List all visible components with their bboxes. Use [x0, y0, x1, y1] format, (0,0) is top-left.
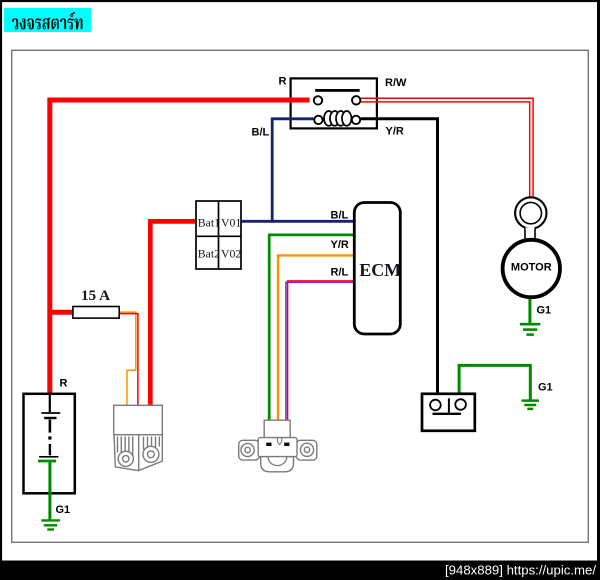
wire Y/R relay to switch	[361, 119, 438, 393]
starter switch SW1	[422, 394, 475, 431]
svg-text:[948x889] https://upic.me/: [948x889] https://upic.me/	[445, 563, 596, 578]
svg-text:Bat1: Bat1	[198, 215, 220, 229]
svg-text:Y/R: Y/R	[386, 126, 404, 138]
fuse F1	[73, 307, 119, 319]
title bar	[4, 8, 91, 32]
relay terminal top-right	[352, 96, 360, 104]
motor M1	[503, 240, 560, 297]
wire R regulator to Bat1	[150, 221, 195, 406]
relay box RL1	[291, 78, 377, 128]
connector table	[196, 201, 241, 269]
wire R fuse to regulator	[119, 314, 138, 407]
regulator rectifier	[114, 405, 163, 470]
svg-text:G1: G1	[537, 305, 552, 317]
wire R fuse feed	[50, 310, 74, 315]
ground G1 battery	[41, 520, 60, 529]
svg-text:R/W: R/W	[385, 77, 407, 89]
wire B/L junction to relay	[272, 119, 313, 223]
relay coil	[324, 111, 351, 126]
relay contact bar	[315, 89, 360, 92]
motor stem	[525, 228, 535, 242]
footer bar	[0, 561, 600, 580]
svg-text:ECM: ECM	[359, 260, 401, 280]
svg-text:MOTOR: MOTOR	[511, 262, 552, 274]
relay terminal bottom-right	[352, 116, 360, 124]
svg-text:15 A: 15 A	[81, 287, 110, 304]
wire O ECM to sensor	[278, 255, 355, 420]
motor terminal ring	[515, 197, 546, 228]
svg-text:Y/R: Y/R	[331, 239, 349, 251]
relay terminal top-left	[314, 96, 322, 104]
svg-text:G1: G1	[56, 504, 71, 516]
svg-text:R/L: R/L	[331, 267, 349, 279]
wire Y/R green ECM to sensor	[269, 235, 354, 421]
svg-text:R: R	[60, 378, 68, 390]
svg-text:B/L: B/L	[331, 210, 349, 222]
crank sensor	[239, 420, 317, 472]
wire R/W inner relay to motor	[361, 102, 530, 198]
svg-text:B/L: B/L	[252, 127, 270, 139]
wire G motor to ground	[528, 297, 531, 324]
wire R/L red ECM to sensor	[288, 281, 355, 421]
wire B/L table to ECM	[241, 220, 354, 223]
page borders	[0, 0, 600, 2]
ground G1 switch	[522, 401, 540, 409]
svg-text:R: R	[279, 76, 287, 88]
svg-text:G1: G1	[538, 381, 553, 393]
svg-text:Bat2: Bat2	[198, 247, 220, 261]
wire G switch to ground	[459, 365, 530, 399]
svg-text:V02: V02	[221, 247, 241, 261]
ECM U1	[354, 203, 401, 335]
ground G1 motor	[520, 324, 540, 334]
wire R/L blue ECM to sensor	[286, 282, 355, 420]
svg-text:V01: V01	[221, 215, 241, 229]
relay terminal bottom-left	[314, 116, 322, 124]
wire R battery to relay	[50, 100, 310, 393]
wire R/W outer relay to motor	[361, 98, 533, 197]
wire O fuse to regulator	[119, 312, 136, 406]
battery BT1	[24, 394, 75, 520]
